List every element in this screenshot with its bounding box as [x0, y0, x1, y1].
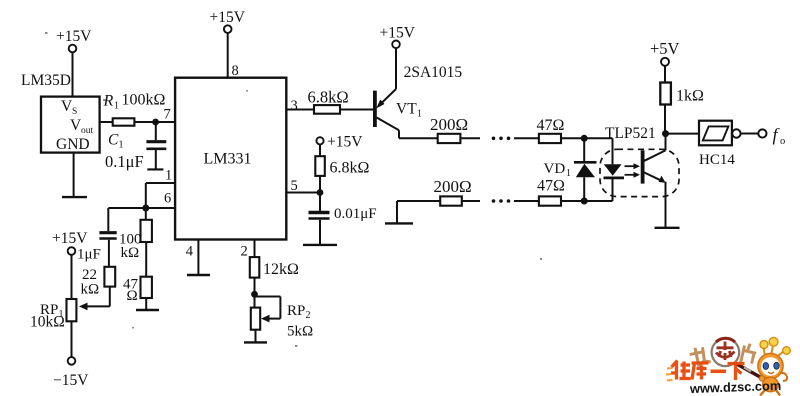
svg-text:8: 8 [232, 63, 239, 79]
svg-text:47Ω: 47Ω [537, 117, 565, 134]
scan specks (noise) [45, 32, 542, 347]
ground (RP2) [244, 330, 267, 343]
diode VD1 [544, 138, 597, 201]
svg-text:0.1μF: 0.1μF [105, 152, 144, 171]
svg-text:HC14: HC14 [699, 152, 735, 168]
power +15V (pin5 pullup) [316, 134, 363, 157]
svg-text:+15V: +15V [210, 9, 246, 26]
svg-text:Ω: Ω [127, 288, 138, 304]
svg-text:LM331: LM331 [204, 151, 252, 168]
wire pin6 [146, 190, 175, 208]
svg-text:+15V: +15V [380, 25, 416, 42]
svg-text:4: 4 [186, 244, 194, 260]
svg-text:VD: VD [544, 161, 566, 177]
svg-text:VT: VT [396, 100, 417, 117]
svg-text:C: C [108, 132, 119, 149]
svg-text:www.dzsc.com: www.dzsc.com [689, 378, 782, 396]
svg-text:1: 1 [417, 108, 422, 119]
svg-text:+15V: +15V [327, 134, 363, 151]
svg-text:6.8kΩ: 6.8kΩ [308, 88, 349, 107]
magnifier lens [712, 338, 740, 366]
resistor 200 (bottom) [434, 177, 472, 206]
svg-text:1: 1 [114, 101, 119, 112]
resistor 47 (top) [537, 117, 565, 143]
IC LM35D [21, 72, 100, 153]
resistor 47 (bottom) [537, 178, 565, 206]
wire bottom rail 2 [462, 200, 480, 202]
svg-text:10kΩ: 10kΩ [30, 314, 65, 331]
resistor R1 100k [103, 92, 166, 126]
node 7 junction [152, 107, 171, 126]
svg-text:7: 7 [164, 107, 171, 123]
svg-text:LM35D: LM35D [21, 72, 71, 89]
wire bottom rail [397, 200, 440, 202]
speed lines [666, 368, 673, 381]
svg-text:S: S [72, 107, 77, 117]
mascot [758, 337, 790, 395]
magnifier handle [736, 364, 763, 379]
svg-text:+15V: +15V [52, 230, 88, 247]
svg-text:0.01μF: 0.01μF [334, 206, 377, 222]
node fo output [773, 125, 786, 148]
wire node6 left branch [108, 208, 146, 231]
resistor 12k [250, 257, 299, 278]
svg-text:2: 2 [306, 310, 311, 321]
watermark logo [666, 337, 790, 396]
node 6 junction [142, 205, 149, 212]
wire bottom rail 3 [514, 200, 539, 202]
char zhao [689, 345, 712, 368]
wire base [340, 109, 373, 111]
wire collector to top rail [399, 137, 438, 139]
power +15V (LM35D supply) [56, 28, 92, 97]
svg-text:100kΩ: 100kΩ [122, 92, 166, 109]
wire pin3 [286, 98, 314, 114]
LED (optocoupler) [604, 138, 625, 201]
svg-text:5kΩ: 5kΩ [287, 324, 313, 340]
power +15V (RP1 top) [52, 230, 88, 299]
char pian [741, 343, 758, 366]
wire bottom rail 4 [561, 200, 613, 202]
resistor 6.8k (base) [308, 88, 349, 114]
power +15V (VT1 emitter) [380, 25, 416, 90]
node RP2 junction [251, 291, 258, 298]
ground (0.01uF) [303, 244, 337, 246]
svg-text:out: out [81, 126, 94, 136]
svg-text:1: 1 [165, 168, 172, 184]
resistor 47 (node6) [123, 242, 152, 304]
optocoupler TLP521 dashed box [600, 125, 679, 197]
svg-text:1: 1 [566, 168, 571, 179]
ground (bottom rail left) [385, 201, 413, 223]
ground (47 ohm) [136, 298, 159, 310]
wire top rail 3 [561, 137, 613, 139]
light arrows [625, 163, 641, 178]
svg-text:kΩ: kΩ [81, 282, 100, 298]
wire top rail 2 [514, 137, 539, 139]
resistor 200 (top) [430, 115, 468, 143]
svg-text:kΩ: kΩ [121, 245, 140, 261]
capacitor 0.01uF [309, 193, 377, 245]
power -15V (RP1 bottom) [53, 321, 89, 389]
ground (phototransistor emitter) [655, 227, 680, 229]
svg-text:−15V: −15V [53, 372, 89, 389]
wire 12k to node [254, 278, 256, 295]
gate HC14 schmitt inverter [699, 121, 767, 168]
wire 1k to node [664, 105, 666, 134]
capacitor C1 0.1uF [105, 122, 166, 171]
IC LM331 [175, 78, 286, 240]
svg-text:+15V: +15V [56, 28, 92, 45]
node pin5 junction [317, 189, 324, 196]
svg-text:+5V: +5V [650, 39, 680, 58]
node bottom junction [581, 198, 588, 205]
svg-text:2SA1015: 2SA1015 [404, 64, 463, 81]
dots (bottom) [492, 199, 511, 203]
power +5V [650, 39, 680, 83]
node top junction [581, 135, 588, 142]
power +15V (pin 8) [210, 9, 246, 79]
potentiometer RP2 5k [251, 294, 313, 339]
red text weikuyixia [671, 361, 745, 381]
svg-text:2: 2 [241, 244, 248, 260]
wire top rail [460, 137, 480, 139]
phototransistor (optocoupler) [643, 134, 666, 228]
node HC14 input junction [662, 130, 669, 137]
svg-text:200Ω: 200Ω [434, 177, 472, 196]
resistor 22k [81, 267, 116, 298]
wire 22k to RP1 wiper [79, 287, 110, 311]
svg-text:47Ω: 47Ω [537, 178, 565, 195]
wire pin5 [286, 176, 320, 194]
wire pin4 + ground [186, 240, 210, 276]
svg-text:12kΩ: 12kΩ [263, 261, 299, 278]
svg-text:3: 3 [291, 98, 298, 114]
svg-text:o: o [780, 136, 785, 147]
svg-text:6: 6 [164, 190, 171, 206]
svg-text:6.8kΩ: 6.8kΩ [330, 160, 370, 177]
svg-text:1kΩ: 1kΩ [676, 88, 704, 105]
dots (top) [492, 137, 511, 141]
capacitor 1uF [77, 233, 117, 267]
resistor 1k [660, 83, 704, 105]
resistor 6.8k (pin5) [315, 156, 369, 176]
wire R1 to pin7 [134, 121, 175, 123]
wire pin1 [146, 168, 175, 209]
wire to HC14 [666, 133, 700, 135]
svg-text:200Ω: 200Ω [430, 115, 468, 134]
potentiometer RP1 10k [30, 299, 76, 331]
svg-text:GND: GND [56, 136, 90, 153]
transistor VT1 2SA1015 [375, 64, 463, 138]
ground (LM35D GND pin) [62, 153, 87, 198]
wire pin2 [241, 240, 255, 260]
resistor 100k (node6) [119, 208, 152, 261]
svg-text:RP: RP [287, 303, 305, 319]
svg-text:1: 1 [119, 140, 124, 151]
svg-text:5: 5 [291, 178, 298, 194]
svg-text:1μF: 1μF [77, 247, 101, 263]
wire Vout to R1 [100, 121, 113, 123]
